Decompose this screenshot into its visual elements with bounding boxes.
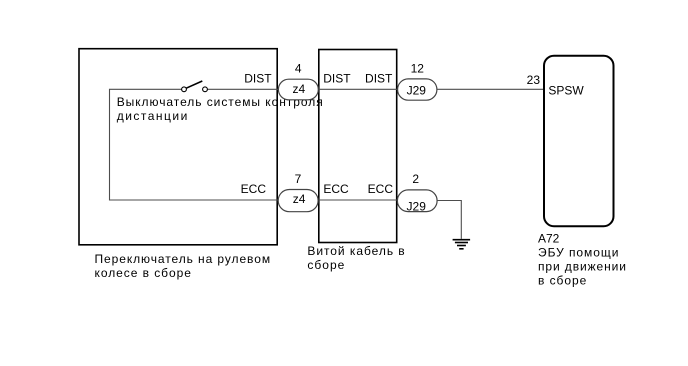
svg-text:DIST: DIST	[244, 72, 272, 86]
svg-text:ECC: ECC	[323, 182, 349, 196]
pin label DIST (cable left)	[323, 72, 351, 86]
wire: DIST from switch contact to connector z4 pin 4	[207, 88, 278, 90]
wire: ECC through twisted cable	[319, 199, 398, 201]
connector z4 pin 4 (DIST)	[278, 79, 318, 100]
pin number 4	[295, 61, 302, 75]
box: steering wheel switch assembly	[79, 49, 277, 245]
connector J29 pin 12 (DIST)	[398, 79, 437, 100]
ground symbol	[453, 240, 471, 249]
svg-text:колесе в сборе: колесе в сборе	[95, 266, 192, 280]
svg-text:ECC: ECC	[368, 182, 394, 196]
svg-text:ЭБУ помощи: ЭБУ помощи	[538, 246, 619, 260]
svg-text:23: 23	[527, 73, 541, 87]
box: twisted cable assembly	[319, 50, 397, 243]
pin label ECC (cable right)	[368, 182, 394, 196]
wire: DIST net inside switch box (left segment)	[110, 89, 279, 200]
svg-text:z4: z4	[293, 82, 306, 96]
connector z4 pin 7 (ECC)	[278, 190, 318, 212]
svg-text:4: 4	[295, 61, 302, 75]
wire: DIST through twisted cable	[319, 88, 398, 90]
svg-text:J29: J29	[407, 199, 427, 213]
label: Выключатель системы контроля дистанции	[117, 95, 324, 123]
pin label SPSW	[548, 84, 584, 98]
ECU box A72 (drive assist ECU)	[544, 56, 614, 227]
wire: DIST from J29 pin 12 to A72 pin 23	[437, 88, 544, 90]
pin number 7	[295, 172, 302, 186]
svg-text:A72: A72	[538, 232, 560, 246]
svg-text:Витой кабель в: Витой кабель в	[307, 244, 405, 258]
svg-text:2: 2	[412, 172, 419, 186]
svg-text:DIST: DIST	[323, 72, 351, 86]
pin label ECC (cable left)	[323, 182, 349, 196]
connector J29 pin 2 (ECC)	[397, 190, 437, 213]
svg-text:z4: z4	[293, 192, 306, 206]
svg-text:сборе: сборе	[307, 258, 345, 272]
caption: A72 ЭБУ помощи при движении в сборе	[538, 232, 627, 288]
pin label DIST (cable right)	[365, 72, 393, 86]
svg-text:ECC: ECC	[241, 182, 267, 196]
caption: Переключатель на рулевом колесе в сборе	[95, 252, 272, 280]
svg-text:SPSW: SPSW	[548, 84, 584, 98]
svg-text:12: 12	[411, 61, 425, 75]
svg-text:Переключатель на рулевом: Переключатель на рулевом	[95, 252, 272, 266]
wire: ECC from J29 pin 2 to ground	[437, 201, 461, 239]
svg-text:DIST: DIST	[365, 72, 393, 86]
pin label DIST (left box)	[244, 72, 272, 86]
svg-text:J29: J29	[407, 83, 427, 97]
pin label ECC (left box)	[241, 182, 267, 196]
caption: Витой кабель в сборе	[307, 244, 405, 272]
pin number 23	[527, 73, 541, 87]
svg-text:дистанции: дистанции	[117, 109, 189, 123]
svg-text:при движении: при движении	[538, 260, 627, 274]
svg-text:7: 7	[295, 172, 302, 186]
pin number 12	[411, 61, 425, 75]
switch S (distance control switch) contact circles and lever	[182, 81, 208, 92]
pin number 2	[412, 172, 419, 186]
svg-text:в сборе: в сборе	[538, 273, 587, 287]
